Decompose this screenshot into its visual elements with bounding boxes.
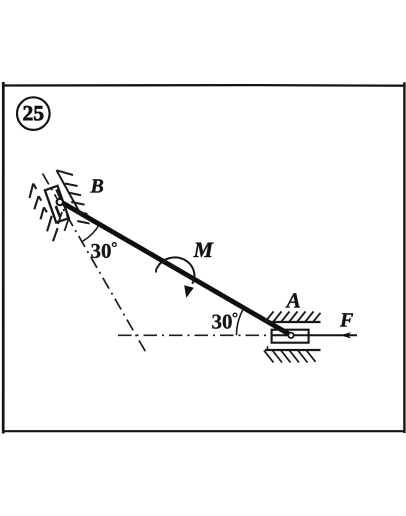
support A: bottom guide line	[265, 349, 321, 351]
support A: top guide line	[265, 321, 321, 323]
moment M arc	[157, 257, 194, 283]
support B: top hatch flag	[57, 170, 74, 175]
support B: hatching left side (strokes with small flags)	[30, 184, 58, 242]
problem number circle 25	[17, 97, 50, 130]
moment M arrowhead	[184, 285, 194, 298]
label M	[193, 243, 213, 257]
support B: inner ink bands	[56, 190, 61, 218]
moment M start hook	[156, 267, 158, 273]
frame border	[2, 82, 406, 434]
degree mark at B	[112, 243, 116, 247]
support A: hatching below	[264, 351, 316, 363]
label F	[340, 313, 353, 326]
support A: pin	[288, 333, 293, 338]
angle arc 30 deg at A	[237, 308, 244, 335]
horizontal dash-dot axis at A	[118, 334, 272, 336]
inclined dash-dot axis at B	[43, 174, 147, 353]
force F line	[272, 334, 357, 336]
support A: slider rectangle	[272, 330, 309, 343]
label 30 deg at A	[212, 315, 231, 329]
rod AB	[58, 200, 291, 335]
label A	[285, 293, 300, 307]
label 30 deg at B	[91, 244, 110, 258]
support B: inner lower hatches	[58, 212, 69, 231]
support B: right guide line	[57, 170, 83, 216]
support B: hatching right side	[65, 184, 90, 224]
support A: small tick on bottom line left end	[267, 346, 269, 350]
label B	[90, 179, 103, 192]
support B: pin	[57, 199, 63, 205]
degree mark at A	[233, 313, 237, 317]
force F arrowhead (pointing left)	[341, 332, 352, 338]
support B: slider rectangle	[45, 186, 69, 223]
label 25	[23, 106, 43, 120]
support A: hatching above	[265, 312, 321, 323]
angle arc 30 deg at B	[83, 225, 100, 242]
